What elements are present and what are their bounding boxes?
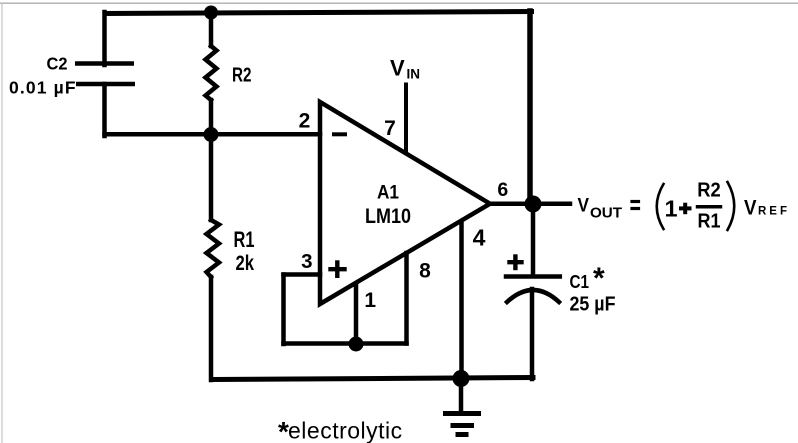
svg-text:0.01 µF: 0.01 µF bbox=[9, 78, 77, 98]
svg-text:A1: A1 bbox=[377, 183, 399, 204]
svg-text:3: 3 bbox=[301, 250, 312, 273]
svg-text:V: V bbox=[390, 56, 405, 81]
svg-text:2: 2 bbox=[299, 109, 311, 132]
svg-text:R2: R2 bbox=[697, 180, 721, 202]
svg-text:2k: 2k bbox=[236, 252, 255, 275]
svg-text:1: 1 bbox=[664, 196, 677, 222]
svg-text:6: 6 bbox=[497, 179, 508, 201]
svg-text:V: V bbox=[578, 195, 590, 217]
svg-text:V: V bbox=[744, 196, 757, 220]
svg-text:R1: R1 bbox=[234, 227, 255, 252]
svg-text:R1: R1 bbox=[698, 211, 721, 233]
svg-text:7: 7 bbox=[384, 117, 396, 140]
svg-text:4: 4 bbox=[473, 225, 486, 251]
svg-text:1: 1 bbox=[364, 289, 376, 312]
svg-text:electrolytic: electrolytic bbox=[288, 418, 403, 443]
svg-text:C2: C2 bbox=[47, 54, 68, 74]
svg-text:LM10: LM10 bbox=[365, 205, 411, 228]
svg-text:REF: REF bbox=[758, 206, 790, 218]
svg-text:25 µF: 25 µF bbox=[570, 294, 616, 316]
svg-text:R2: R2 bbox=[232, 65, 252, 87]
svg-text:OUT: OUT bbox=[590, 206, 622, 222]
svg-text:C1: C1 bbox=[570, 272, 590, 292]
svg-text:*: * bbox=[593, 262, 605, 295]
svg-text:8: 8 bbox=[419, 260, 431, 283]
svg-text:IN: IN bbox=[407, 67, 421, 82]
